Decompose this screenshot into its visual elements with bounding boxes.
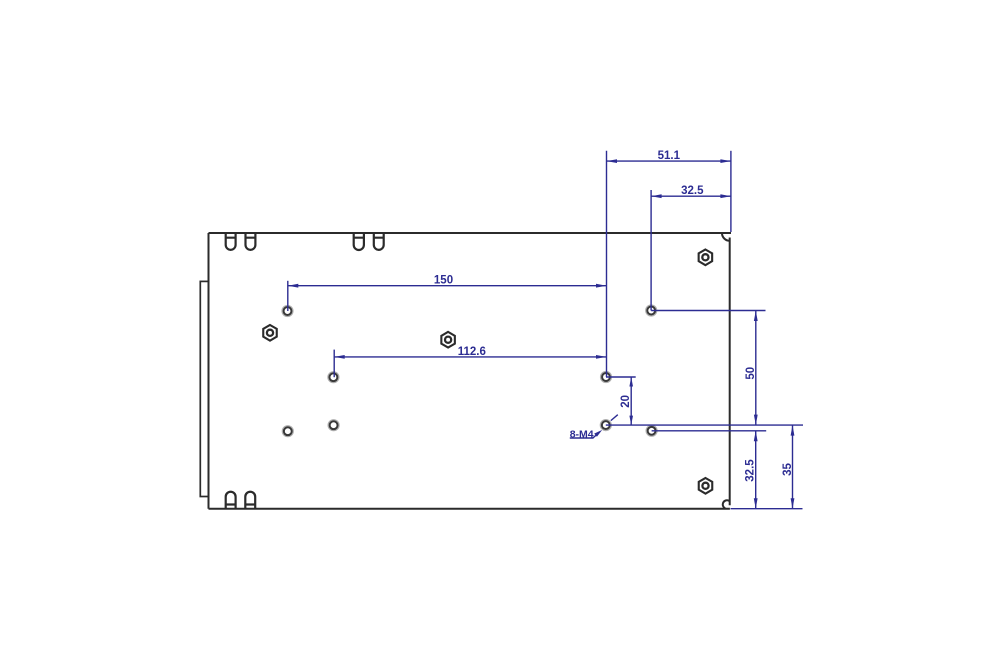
- dim 51.1 line: [607, 160, 731, 162]
- ref line from hole H y=431: [652, 430, 767, 432]
- extension line x=606.5 (51.1 left / 150 right / 112.6 right): [606, 151, 608, 377]
- svg-text:8-M4: 8-M4: [570, 428, 594, 440]
- hole B (M4): [328, 372, 339, 383]
- svg-text:50: 50: [745, 367, 757, 380]
- dim 112.6 line: [334, 356, 606, 358]
- svg-text:112.6: 112.6: [458, 346, 486, 358]
- hole D (M4): [282, 426, 293, 437]
- hole H (M4): [646, 425, 657, 436]
- arrows 50: [754, 311, 758, 322]
- 8-M4 leader stub beyond hole: [611, 415, 618, 421]
- 8-M4 underline: [570, 437, 594, 439]
- top tab 1: [226, 233, 236, 250]
- bottom-right corner relief arc: [723, 500, 730, 508]
- arrows 32.5 top: [651, 194, 662, 198]
- dim 112.6 tick at hole B: [333, 350, 335, 378]
- svg-text:150: 150: [434, 274, 453, 286]
- hole C (M4): [328, 420, 339, 431]
- arrows 150: [288, 284, 299, 288]
- dim 32.5 right line: [755, 431, 757, 509]
- arrows 35: [791, 425, 795, 436]
- arrows 112.6: [334, 355, 345, 359]
- dim 32.5 top line: [651, 195, 731, 197]
- hex standoff 1: [263, 325, 277, 341]
- top tab 4: [374, 233, 384, 250]
- hex standoff 4: [699, 478, 713, 494]
- svg-text:35: 35: [782, 463, 794, 476]
- 8-M4 leader segment: [593, 434, 597, 438]
- dim 35 line: [792, 425, 794, 509]
- hole A (M4): [282, 306, 293, 317]
- top tab 3: [354, 233, 364, 250]
- dim 20 line: [630, 377, 632, 425]
- dim 150 tick at hole A: [287, 281, 289, 311]
- extension tick x=651 for 32.5 top: [650, 190, 652, 311]
- 8-M4 leader arrowhead: [594, 430, 602, 437]
- dim 150 line: [288, 285, 607, 287]
- ref line from hole F (20 top): [606, 376, 636, 378]
- arrows 51.1: [607, 159, 618, 163]
- ref line from hole E (50 top): [651, 310, 765, 312]
- svg-text:20: 20: [620, 395, 632, 408]
- hole E (M4): [646, 305, 657, 316]
- top tab 2: [246, 233, 256, 250]
- bottom extension line: [731, 508, 803, 510]
- chassis outline: [209, 233, 732, 509]
- left flange: [200, 281, 208, 496]
- bottom tab 1: [226, 492, 236, 509]
- hole G (M4): [600, 420, 611, 431]
- svg-text:51.1: 51.1: [658, 150, 681, 162]
- top-right corner relief arc: [722, 233, 730, 241]
- svg-text:32.5: 32.5: [745, 459, 757, 482]
- long ref line from hole G y=425: [606, 424, 803, 426]
- svg-text:32.5: 32.5: [681, 185, 704, 197]
- dim 50 line: [755, 311, 757, 426]
- hole F (M4): [601, 372, 612, 383]
- arrows 20: [629, 377, 633, 387]
- hex standoff 2: [441, 332, 455, 348]
- bottom tab 2: [245, 492, 255, 509]
- extension line x=731 (right edge): [730, 151, 732, 232]
- arrows 32.5 right: [754, 431, 758, 442]
- hex standoff 3: [699, 250, 713, 266]
